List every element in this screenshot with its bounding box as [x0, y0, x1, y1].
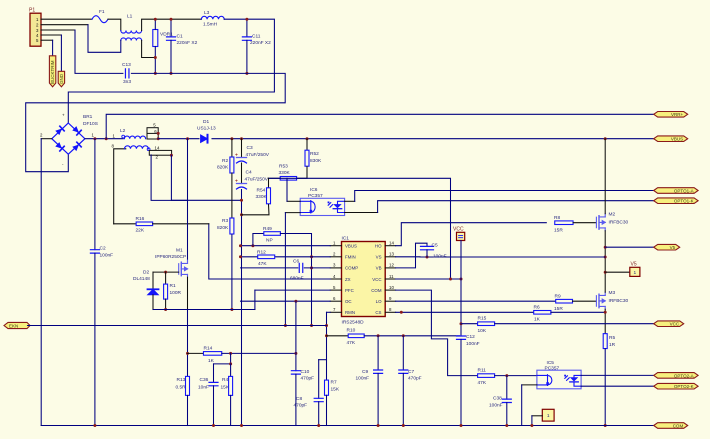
wire P1 pin5 to BUCKTRIM flag	[41, 39, 53, 41]
wire VCC port down to C12	[460, 241, 462, 337]
svg-text:BR1: BR1	[83, 114, 93, 120]
resistor R13 0.5R	[187, 310, 189, 377]
svg-text:+: +	[235, 179, 238, 185]
wire IC5 LED anode to OPTO2-A	[581, 374, 654, 376]
svg-text:IRFBC30: IRFBC30	[609, 298, 629, 304]
svg-text:C3: C3	[247, 145, 253, 151]
svg-text:15K: 15K	[221, 385, 230, 391]
wire IC6 emitter down	[285, 212, 300, 214]
svg-text:R52: R52	[310, 151, 319, 157]
wire branch to C36 R4	[214, 353, 231, 364]
svg-text:OPTO1-K: OPTO1-K	[674, 199, 694, 204]
svg-text:COMP: COMP	[345, 266, 358, 271]
capacitor C3 47uF/250V	[241, 139, 243, 158]
IC1 pin stubs, pin names and pin numbers 1-7 / 14-8	[330, 245, 341, 247]
resistor R3 820K	[231, 173, 233, 218]
svg-text:COM: COM	[673, 423, 684, 428]
svg-text:+: +	[62, 113, 65, 118]
svg-text:PC357: PC357	[545, 366, 560, 372]
svg-text:100nF: 100nF	[100, 253, 114, 259]
svg-text:L1: L1	[127, 14, 133, 20]
wire VS pin13 line	[396, 256, 606, 258]
wire RMN chain to C8 R7	[319, 359, 327, 361]
wire M3 drain up to V5 node	[604, 272, 606, 292]
svg-text:R49: R49	[263, 226, 272, 232]
svg-text:10K: 10K	[478, 328, 487, 334]
mosfet M2 IRFBC30	[596, 214, 605, 231]
wire IC6 LED cathode to OPTO1-K	[345, 212, 378, 214]
capacitor C11 220nF X2	[246, 19, 248, 37]
inductor L3 1.5mH	[201, 16, 224, 19]
wire R15 to VCC flag	[495, 323, 654, 325]
resistor R11 47K	[478, 374, 495, 378]
flag GND vertical	[58, 71, 64, 87]
wire R16 right to ZX	[153, 223, 209, 225]
resistor R7 15K	[325, 380, 329, 395]
svg-text:RMN: RMN	[345, 310, 355, 315]
wire IC5 LED cathode to OPTO2-K	[581, 385, 654, 387]
svg-text:10nF: 10nF	[198, 385, 209, 391]
svg-text:100nF: 100nF	[433, 254, 447, 260]
svg-text:C38: C38	[493, 396, 502, 402]
svg-text:11: 11	[389, 274, 394, 279]
R10 line to C12	[364, 335, 459, 337]
flag V5	[605, 246, 654, 248]
wire M2 source down	[604, 231, 606, 273]
resistor R52 830K	[306, 139, 308, 150]
wire bridge right vertex / VBUS rail start	[85, 138, 123, 140]
svg-text:820K: 820K	[217, 225, 229, 231]
wire R8 to M2 gate	[573, 222, 596, 224]
svg-text:LO: LO	[376, 299, 382, 304]
capacitor C6 680nF	[299, 263, 303, 272]
VBUS rail D1 to flag	[212, 138, 654, 140]
ground bus COM	[41, 425, 654, 427]
svg-text:R15: R15	[478, 316, 487, 322]
svg-text:R6: R6	[534, 305, 540, 311]
resistor R2 820K	[231, 139, 233, 157]
svg-text:C2: C2	[100, 246, 106, 252]
flag OPTO1-K	[654, 198, 698, 204]
capacitor C4 47uF/250V	[241, 163, 243, 184]
svg-text:PFC: PFC	[345, 288, 354, 293]
optocoupler IC5 PC357	[537, 370, 581, 389]
svg-text:OC: OC	[345, 299, 352, 304]
svg-text:M2: M2	[609, 212, 616, 218]
wire P1 pin1 to F1	[41, 18, 92, 20]
wire bridge left vertex to DC- bus	[41, 138, 52, 140]
wire L1 top right to phase rail	[142, 19, 202, 30]
capacitor C38 100nF	[506, 376, 508, 400]
VCC feed line to IC pin11	[269, 178, 451, 279]
svg-text:1.5mH: 1.5mH	[203, 22, 218, 28]
resistor R5 1R	[603, 334, 607, 349]
wire P1 pin4 to GND flag	[41, 34, 61, 36]
capacitor C36 10nF	[213, 364, 215, 383]
wire R53 left stub	[269, 177, 281, 179]
wire P1 pin3 to C13 line	[41, 29, 75, 31]
resistor R15 10K	[478, 322, 495, 326]
svg-text:15R: 15R	[554, 228, 563, 234]
svg-text:R8: R8	[554, 215, 560, 221]
optocoupler IC6 PC357	[300, 198, 344, 215]
svg-text:10: 10	[389, 285, 394, 290]
mosfet M3 IRFBC30	[596, 292, 605, 309]
svg-text:R9: R9	[555, 294, 561, 300]
svg-text:VBUS: VBUS	[671, 137, 683, 142]
svg-text:47K: 47K	[258, 261, 267, 267]
svg-text:12: 12	[389, 263, 394, 268]
wire VBUS pin1 line	[241, 245, 331, 247]
svg-text:IC6: IC6	[310, 187, 318, 193]
OC vertical to C10	[295, 301, 297, 371]
svg-text:VCC: VCC	[453, 227, 464, 233]
wire aux box bottom to M1 drain	[151, 155, 187, 201]
svg-text:HO: HO	[375, 244, 382, 249]
capacitor C1 220nF X2	[170, 19, 172, 37]
connector P1	[30, 13, 41, 46]
svg-text:NP: NP	[266, 238, 273, 244]
svg-text:220nF X2: 220nF X2	[250, 40, 271, 46]
wire CS pin8 to R6	[396, 311, 534, 313]
svg-text:100nF: 100nF	[489, 403, 503, 409]
svg-text:C5: C5	[432, 243, 438, 249]
svg-text:D2: D2	[143, 270, 149, 276]
svg-text:GND: GND	[59, 73, 64, 84]
svg-text:100nF: 100nF	[356, 376, 370, 382]
svg-text:COM: COM	[371, 288, 382, 293]
svg-text:R54: R54	[257, 188, 266, 194]
wire R49 right to FMIN node	[280, 234, 311, 326]
wire RMN pin7 line	[327, 311, 331, 313]
wire R52 bottom to R53	[297, 167, 307, 179]
svg-text:ZX: ZX	[345, 277, 351, 282]
svg-text:C1: C1	[177, 34, 183, 40]
svg-text:C10: C10	[301, 369, 310, 375]
resistor R1 100R	[165, 272, 167, 284]
flag BUCKTRIM vertical	[49, 56, 55, 87]
svg-text:R10: R10	[347, 328, 356, 334]
svg-text:100R: 100R	[170, 290, 182, 296]
diode D2 DL4148	[152, 272, 154, 289]
transformer L2 tap box pins 5 6 3	[147, 128, 158, 139]
svg-text:+: +	[235, 153, 238, 159]
svg-text:47uF/250V: 47uF/250V	[246, 152, 270, 158]
svg-text:220nF X2: 220nF X2	[177, 40, 198, 46]
svg-text:R4: R4	[222, 377, 228, 383]
svg-text:L2: L2	[120, 128, 126, 134]
svg-text:VS: VS	[376, 255, 382, 260]
flag COM	[654, 423, 688, 429]
svg-text:CS: CS	[375, 310, 381, 315]
wire ZX pin4 line from R16	[209, 224, 330, 279]
svg-text:EKN: EKN	[9, 323, 18, 328]
capacitor C8 470pF	[318, 360, 320, 399]
flag OPTO1-A	[654, 188, 698, 194]
port V5 1	[605, 271, 630, 273]
svg-text:V5: V5	[631, 262, 637, 268]
svg-text:1R: 1R	[609, 342, 616, 348]
svg-text:14: 14	[389, 241, 394, 246]
svg-text:R2: R2	[222, 158, 228, 164]
wire R54 bottom to node	[242, 205, 270, 215]
svg-text:C11: C11	[252, 34, 261, 40]
svg-text:3n3: 3n3	[123, 79, 131, 85]
svg-text:C9: C9	[362, 369, 368, 375]
junction dots on ground bus	[93, 424, 96, 427]
transformer L2 secondary tap box pins 14 2	[149, 150, 171, 155]
resistor R4 15K	[230, 364, 232, 376]
wire L3 to C11 and corner	[68, 19, 274, 123]
fuse F1	[92, 16, 108, 23]
mosfet M1 IPP60R250CP	[187, 139, 189, 262]
svg-text:R12: R12	[257, 250, 266, 256]
capacitor C10 470pF	[291, 371, 300, 374]
wire M1 gate line	[153, 271, 179, 273]
svg-text:R11: R11	[478, 368, 487, 374]
wire VRR+ line	[106, 114, 654, 138]
svg-text:FMIN: FMIN	[345, 255, 356, 260]
svg-text:C12: C12	[466, 334, 475, 340]
wire HO pin14 to R8	[396, 223, 547, 246]
wire P1 pin2 to L1 bottom	[41, 24, 88, 26]
svg-text:M3: M3	[609, 290, 616, 296]
flag VRR+	[654, 112, 688, 118]
wire COM pin10 to R11	[396, 290, 478, 376]
svg-text:1K: 1K	[534, 317, 541, 323]
svg-text:14: 14	[155, 145, 160, 150]
svg-text:15K: 15K	[331, 387, 340, 393]
flag OPTO2-K	[654, 383, 698, 389]
svg-text:1: 1	[634, 270, 637, 276]
flag EKN	[4, 322, 30, 328]
resistor R8 15R	[555, 221, 573, 225]
wire M3 source	[604, 309, 606, 334]
svg-text:IC5: IC5	[547, 360, 555, 366]
IC IC1 IRS2548D	[342, 242, 386, 317]
resistor R54 330K	[268, 178, 270, 187]
wire VCC pin11 line	[396, 278, 461, 280]
capacitor C7 470pF	[402, 336, 404, 370]
wire R9 to M3 gate	[573, 300, 597, 302]
transformer L2 primary	[122, 135, 125, 138]
bridge rectifier BR1 DF10S	[52, 123, 85, 154]
wire aux winding to node	[171, 155, 241, 200]
wire R11 to IC5	[495, 375, 537, 377]
capacitor C13 3n3	[125, 69, 129, 78]
wire C4 bottom node	[241, 190, 243, 426]
resistor R14 1K	[188, 352, 204, 354]
svg-text:470pF: 470pF	[408, 376, 422, 382]
wire IC6 LED anode to OPTO1-A	[345, 200, 355, 202]
flag VBUS	[654, 136, 688, 142]
wire VDR1 bottom	[154, 47, 156, 74]
svg-text:IRS2548D: IRS2548D	[342, 320, 365, 326]
wire M2 drain to VBUS rail	[604, 139, 606, 214]
svg-text:1: 1	[547, 413, 550, 419]
source sense line	[153, 309, 255, 311]
svg-text:DF10S: DF10S	[83, 121, 98, 127]
transformer L2 secondary	[114, 149, 126, 224]
VBUS rail to D1	[158, 138, 199, 140]
wire C2 branch	[94, 139, 96, 250]
svg-text:R13: R13	[177, 377, 186, 383]
svg-text:830K: 830K	[310, 158, 322, 164]
EKN net line	[28, 325, 327, 327]
svg-text:OPTO1-A: OPTO1-A	[674, 188, 694, 193]
resistor R6 1K	[534, 311, 551, 315]
svg-text:C4: C4	[246, 170, 252, 176]
svg-text:330K: 330K	[256, 194, 268, 200]
wire R3 bottom to sense line	[231, 235, 233, 310]
svg-text:OPTO2-K: OPTO2-K	[674, 384, 694, 389]
svg-text:47K: 47K	[347, 340, 356, 346]
svg-text:47K: 47K	[478, 380, 487, 386]
svg-text:1K: 1K	[208, 358, 215, 364]
resistor R10 47K	[327, 335, 349, 337]
wire FMIN pin2 line	[241, 256, 331, 258]
svg-text:IPP60R250CP: IPP60R250CP	[155, 254, 186, 260]
varistor VDR1	[153, 30, 158, 47]
capacitor C2 100nF	[90, 250, 99, 253]
wire PFC pin5 line	[255, 289, 330, 291]
svg-text:VBUS: VBUS	[345, 244, 357, 249]
svg-text:L3: L3	[204, 10, 210, 16]
wire M1 source to sense line	[187, 277, 189, 309]
wire R6 to M3 source	[551, 311, 605, 313]
resistor R49 NP	[253, 234, 264, 246]
svg-text:PC357: PC357	[308, 193, 323, 199]
wire R15 VCC output	[461, 323, 478, 325]
resistor R16 22K	[114, 223, 136, 225]
svg-text:330K: 330K	[279, 170, 291, 176]
svg-text:R5: R5	[609, 335, 615, 341]
junction dots on VBUS rail	[230, 137, 233, 140]
svg-text:VRR+: VRR+	[671, 112, 684, 117]
svg-text:VB: VB	[376, 266, 382, 271]
svg-text:BUCKTRIM: BUCKTRIM	[50, 60, 55, 84]
port ground 1	[542, 409, 554, 421]
svg-text:C13: C13	[122, 62, 131, 68]
svg-text:15R: 15R	[554, 306, 563, 312]
svg-text:470pF: 470pF	[294, 403, 308, 409]
svg-text:OPTO2-A: OPTO2-A	[674, 373, 694, 378]
capacitor C12 100nF	[457, 336, 466, 339]
svg-text:C6: C6	[293, 259, 299, 265]
resistor R9 15R	[556, 299, 573, 303]
svg-text:13: 13	[389, 252, 394, 257]
resistor R12 47K	[258, 255, 275, 259]
svg-text:C36: C36	[200, 377, 209, 383]
svg-text:820K: 820K	[217, 165, 229, 171]
svg-text:IC1: IC1	[342, 236, 350, 242]
svg-text:DL4148: DL4148	[133, 276, 150, 282]
svg-text:C8: C8	[296, 396, 302, 402]
svg-text:VCC: VCC	[670, 322, 680, 327]
svg-text:R16: R16	[136, 216, 145, 222]
svg-text:R14: R14	[204, 346, 213, 352]
svg-text:VCC: VCC	[372, 277, 381, 282]
svg-text:R7: R7	[331, 380, 337, 386]
wire IC6 collector up to VCC line	[287, 200, 300, 202]
wire IC5 emitter to ground	[522, 384, 537, 386]
wire port to ground bus	[532, 415, 542, 417]
capacitor C9 100nF	[377, 336, 379, 370]
svg-text:US1J-13: US1J-13	[197, 126, 216, 132]
svg-text:M1: M1	[176, 248, 183, 254]
resistor R53 330K	[280, 177, 296, 181]
svg-text:D1: D1	[203, 119, 209, 125]
diode D1 US1J-13	[201, 135, 208, 143]
svg-text:IRFBC30: IRFBC30	[609, 220, 629, 226]
svg-text:C7: C7	[408, 369, 414, 375]
svg-text:470pF: 470pF	[301, 376, 315, 382]
svg-text:V5: V5	[670, 245, 676, 250]
neutral line C13 to bridge	[26, 73, 286, 171]
wire R14 right to OC node	[222, 352, 296, 354]
svg-text:47uF/250V: 47uF/250V	[245, 177, 269, 183]
wire COMP pin3 line	[241, 267, 298, 269]
svg-text:P1: P1	[29, 8, 35, 14]
flag OPTO2-A	[654, 373, 698, 379]
svg-text:22K: 22K	[136, 227, 145, 233]
inductor L1 common-mode choke	[121, 31, 142, 34]
wire OC pin6 line	[241, 300, 331, 302]
svg-text:R1: R1	[170, 283, 176, 289]
svg-text:0.5R: 0.5R	[176, 385, 187, 391]
svg-text:R53: R53	[279, 164, 288, 170]
wire L1 bottom right down	[142, 41, 156, 58]
svg-text:100nF: 100nF	[466, 341, 480, 347]
wire VDR1 top	[154, 19, 156, 29]
flag VCC	[654, 321, 684, 327]
port VCC	[457, 232, 465, 240]
wire LO pin9 to R9	[396, 300, 556, 302]
capacitor C5 100nF	[396, 243, 427, 268]
svg-text:R3: R3	[222, 218, 228, 224]
svg-text:F1: F1	[99, 9, 105, 15]
wire F1 to L1 top	[108, 19, 121, 30]
